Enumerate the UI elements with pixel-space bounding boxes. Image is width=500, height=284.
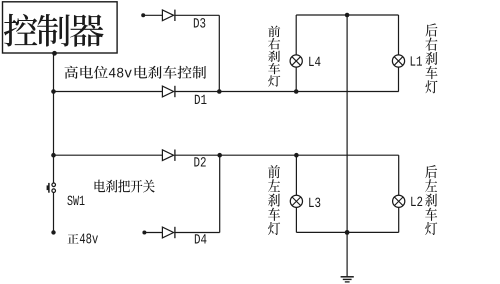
node junction left vertical / D2 wire xyxy=(51,153,56,158)
wire L4 vertical upper xyxy=(295,15,297,55)
label D3 xyxy=(194,18,199,27)
label L4 xyxy=(309,57,314,66)
switch SW1 xyxy=(47,183,56,193)
controller box xyxy=(3,2,118,53)
label D1 xyxy=(195,95,200,104)
label L3 xyxy=(309,198,314,207)
wire upper lamp group top rail xyxy=(296,14,398,16)
wire D3 branch vertical down to D1 row xyxy=(218,15,220,91)
node junction D4 branch on D2 row xyxy=(217,153,222,158)
label D4 xyxy=(195,234,200,243)
label L2 xyxy=(411,197,416,206)
label 后左刹车灯 (vertical) xyxy=(425,165,437,235)
wire L1 vertical upper xyxy=(398,15,400,55)
label 高电位48v电刹车控制 xyxy=(65,66,207,79)
wire D1 row left segment xyxy=(54,91,163,93)
diode D1 xyxy=(162,86,173,97)
wire L3 vertical lower xyxy=(295,207,297,232)
diode D2 xyxy=(162,150,173,161)
node junction L3 vertical on D2 row xyxy=(294,153,299,158)
label 电刹把开关 xyxy=(95,180,155,193)
label D2 xyxy=(194,157,199,166)
terminal node D3 input xyxy=(141,13,145,17)
wire: main left vertical from controller xyxy=(53,53,55,183)
lamp L4 xyxy=(290,55,302,67)
label L1 xyxy=(411,56,416,65)
wire D4 branch vertical up to D2 row xyxy=(219,155,221,232)
terminal node D4 input xyxy=(142,231,146,235)
terminal node +48v xyxy=(51,230,55,234)
node junction ground stem on bottom rail xyxy=(345,230,350,235)
wire center vertical (ground return) xyxy=(346,15,348,276)
wire D2 row right segment to lower lamp rail xyxy=(175,154,399,156)
lamp L1 xyxy=(392,55,404,67)
lamp L3 xyxy=(290,195,302,207)
wire L3 vertical upper xyxy=(295,155,297,195)
ground xyxy=(341,277,354,282)
label SW1 xyxy=(67,196,72,206)
wire D4 cathode to corner xyxy=(175,232,220,234)
wire D2 row left segment xyxy=(54,154,163,156)
node junction L4 vertical on D1 row xyxy=(294,89,299,94)
node junction left vertical / D1 wire xyxy=(51,89,56,94)
wire lower lamp bottom rail xyxy=(296,231,398,233)
label 控制器 xyxy=(4,14,104,47)
wire D4 anode xyxy=(144,232,162,234)
diode D4 xyxy=(162,227,173,238)
wire L2 vertical lower xyxy=(398,207,400,232)
wire left vertical below switch xyxy=(53,193,55,233)
wire D3 anode xyxy=(143,14,162,16)
wire L4 vertical lower xyxy=(295,67,297,91)
wire D3 cathode to corner xyxy=(175,14,219,16)
label 后右刹车灯 (vertical) xyxy=(425,23,437,93)
label 前右刹车灯 (vertical) xyxy=(268,26,280,87)
wire L1 vertical lower xyxy=(398,67,400,91)
label 正48v xyxy=(67,234,97,244)
node junction D3 branch on D1 row xyxy=(217,89,222,94)
wire L2 vertical upper xyxy=(398,155,400,195)
lamp L2 xyxy=(393,195,405,207)
wire D1 row right segment to lamp rail xyxy=(175,91,399,93)
node junction center vertical on top rail xyxy=(345,13,350,18)
label 前左刹车灯 (vertical) xyxy=(268,165,280,235)
node junction at controller output xyxy=(52,51,57,56)
diode D3 xyxy=(162,10,173,21)
